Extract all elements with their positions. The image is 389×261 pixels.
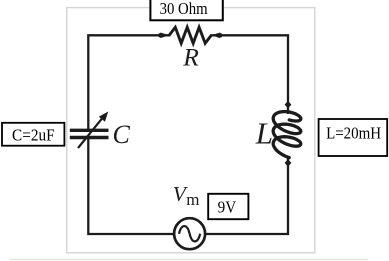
resistor R zigzag bbox=[169, 27, 211, 43]
inductor L current arrow top bbox=[287, 107, 289, 114]
resistor lead arrow right bbox=[211, 33, 220, 39]
capacitor C top plate bbox=[70, 129, 109, 132]
value box 30 Ohm bbox=[150, 0, 222, 20]
svg-text:C=2uF: C=2uF bbox=[12, 126, 55, 145]
value box L=20mH bbox=[319, 119, 388, 156]
value box 9V bbox=[208, 194, 248, 219]
svg-text:30 Ohm: 30 Ohm bbox=[160, 0, 209, 18]
svg-text:9V: 9V bbox=[218, 198, 237, 217]
svg-text:L=20mH: L=20mH bbox=[326, 123, 381, 142]
capacitor C bottom plate bbox=[70, 136, 109, 139]
capacitor C variable arrow bbox=[78, 117, 104, 148]
wire top-right segment bbox=[211, 35, 288, 107]
svg-text:R: R bbox=[182, 43, 199, 72]
inductor L coil bbox=[273, 112, 301, 158]
AC source Vm circle bbox=[174, 218, 205, 249]
svg-text:m: m bbox=[186, 190, 199, 209]
cropped text underline at bottom bbox=[10, 259, 368, 261]
svg-text:L: L bbox=[255, 116, 273, 151]
resistor lead arrow left bbox=[160, 33, 169, 39]
inductor L current arrow bottom bbox=[287, 156, 289, 163]
wire bottom-left segment bbox=[88, 139, 173, 234]
wire top-left segment bbox=[88, 35, 169, 129]
wire right-bottom segment bbox=[206, 158, 288, 235]
picture frame border bbox=[67, 8, 315, 253]
svg-text:C: C bbox=[113, 120, 131, 149]
value box C=2uF bbox=[2, 123, 64, 146]
AC source sine wave bbox=[179, 226, 200, 241]
